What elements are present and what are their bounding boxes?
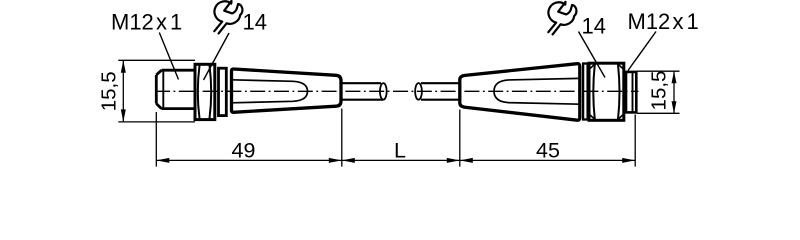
extension line cone end left (341, 109, 343, 167)
svg-text:15,5: 15,5 (98, 71, 121, 111)
hex nut left (195, 64, 215, 119)
svg-text:14: 14 (582, 13, 606, 38)
extension line cone start right (459, 110, 461, 167)
cable break ellipse right (415, 83, 422, 100)
washer ring right (583, 64, 588, 120)
dimension line L (342, 159, 460, 161)
bottom dimension lines (156, 109, 635, 167)
cone inner cable outline right (494, 78, 580, 104)
cable break ellipse left (380, 83, 387, 100)
washer ring left (219, 68, 227, 115)
svg-text:14: 14 (243, 10, 267, 35)
strain-relief cone right (460, 64, 580, 121)
wrench icon left (214, 1, 242, 34)
extension line left plug face (155, 112, 157, 167)
connector end piece right (626, 72, 636, 113)
dim arrows bottom (156, 158, 635, 163)
cable left (341, 83, 383, 100)
hex nut right (589, 63, 624, 120)
strain-relief cone left (232, 69, 342, 112)
dimension 15,5 right (637, 71, 680, 113)
wire leader wrench right (579, 32, 606, 78)
connector plug body left (thread) (156, 70, 196, 108)
dimension line 45 (460, 159, 635, 161)
svg-text:45: 45 (536, 139, 560, 163)
svg-text:L: L (394, 139, 406, 163)
centerline (155, 90, 639, 92)
svg-text:49: 49 (232, 139, 256, 163)
wrench icon right (548, 2, 576, 35)
wire leader wrench left (204, 33, 230, 80)
wire leader M12x1 left (159, 33, 178, 80)
svg-text:M12x1: M12x1 (111, 10, 182, 35)
extension line right end face (634, 115, 636, 167)
wire leader M12x1 right (628, 32, 656, 71)
cone inner cable outline left (232, 80, 308, 103)
svg-text:15,5: 15,5 (648, 71, 671, 111)
cable right (421, 83, 461, 100)
svg-text:M12x1: M12x1 (628, 9, 699, 34)
dimension 15,5 left (118, 60, 195, 122)
dimension line 49 (156, 159, 341, 161)
